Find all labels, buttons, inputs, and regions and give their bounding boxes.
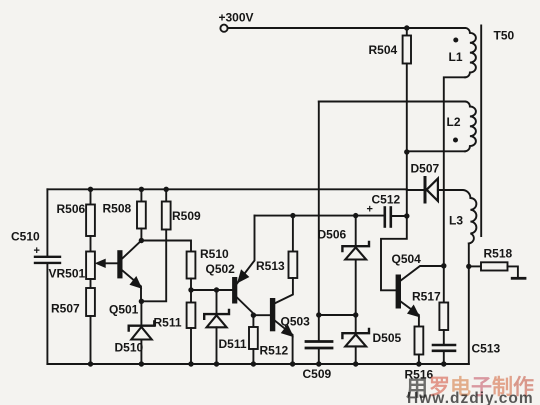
wire D507 anode to L3 top <box>438 189 463 191</box>
resistor R506 <box>86 205 95 237</box>
svg-text:+: + <box>367 204 373 216</box>
junction ground rail D505 <box>353 361 358 366</box>
wire R511 bottom to ground rail <box>190 328 192 364</box>
svg-text:Q504: Q504 <box>392 252 422 266</box>
svg-text:D507: D507 <box>411 162 440 176</box>
svg-text:R512: R512 <box>260 344 289 358</box>
svg-text:C513: C513 <box>472 342 501 356</box>
junction L3 bottom/R518 <box>466 264 471 269</box>
svg-text:+300V: +300V <box>219 11 254 25</box>
junction ground rail R512 <box>251 361 256 366</box>
wire L3 bottom column <box>468 243 470 364</box>
zener D510 triangle <box>131 327 151 340</box>
wire R506 to VR501 <box>90 236 92 252</box>
transistor Q504 collector <box>401 266 444 281</box>
svg-text:R507: R507 <box>51 302 80 316</box>
resistor R517 <box>439 303 448 331</box>
wire D506 bottom to bus <box>355 260 357 316</box>
transistor Q501 collector <box>122 241 142 260</box>
zener D506 triangle <box>345 247 366 259</box>
wire D506 top stub <box>355 216 357 245</box>
junction bus/D505-D506 <box>353 312 358 317</box>
wire +300V top rail <box>228 27 465 29</box>
junction Q501 emitter/R509/D510 <box>139 299 144 304</box>
junction ground rail C513 <box>441 361 446 366</box>
resistor R508 <box>137 202 146 229</box>
wire R510 to R511 node <box>190 279 192 303</box>
svg-text:D511: D511 <box>219 337 247 351</box>
svg-text:R513: R513 <box>256 259 285 273</box>
transistor Q501 emitter <box>122 270 142 302</box>
zener D511 triangle <box>207 315 227 327</box>
diode D507 cathode bar <box>424 178 427 203</box>
transformer phase dot L1 <box>453 38 458 43</box>
wire R518 right to ground <box>508 266 518 277</box>
transistor Q501 base bar <box>117 250 122 278</box>
junction ground rail R507 <box>88 361 93 366</box>
wire R513 top stub <box>292 216 294 252</box>
wire L1 bottom to collector column <box>444 77 465 265</box>
svg-text:R504: R504 <box>369 43 398 57</box>
transformer phase dot L2 <box>453 138 458 143</box>
resistor R516 <box>415 327 424 355</box>
resistor R504 <box>403 36 411 64</box>
wire left rail lower <box>46 264 48 364</box>
svg-text:L1: L1 <box>449 50 463 64</box>
wire main rail (R504/L2 node) down to C512 and base network <box>381 152 407 290</box>
resistor R512 <box>249 327 258 349</box>
wire Q502 base <box>191 289 232 291</box>
transistor Q503 base bar <box>270 298 275 331</box>
svg-text:R518: R518 <box>484 247 513 261</box>
junction R504 top <box>404 25 409 30</box>
svg-text:R510: R510 <box>200 247 229 261</box>
wire R518 left <box>469 265 481 267</box>
wire D510 bottom to ground rail <box>140 340 142 365</box>
svg-text:D506: D506 <box>318 228 347 242</box>
wire L2 top feedback wire <box>319 101 465 103</box>
wire Q502 collector to Q503 base node <box>253 314 270 316</box>
svg-text:L3: L3 <box>449 214 463 228</box>
wire L2 bottom to R504 bottom <box>407 150 465 152</box>
zener D505 triangle <box>345 334 366 346</box>
junction rail R509 <box>164 187 169 192</box>
junction rail R506 <box>88 187 93 192</box>
junction D511 top <box>214 287 219 292</box>
transistor Q502 emitter (PNP, up) <box>237 216 255 284</box>
inductor L2 (feedback winding) <box>465 102 476 152</box>
wire R509 top stub <box>165 189 167 201</box>
zener D506 cathode bar <box>342 242 369 251</box>
wire Q502 emitter node rail y215.6 <box>255 215 384 217</box>
wire R517 to C513 <box>443 330 445 344</box>
wire C512 right plate to main node <box>391 215 407 217</box>
svg-text:R517: R517 <box>412 290 441 304</box>
wire R508 top stub <box>140 189 142 201</box>
junction ground rail D511 <box>214 361 219 366</box>
inductor L3 <box>462 190 476 243</box>
svg-text:Q503: Q503 <box>281 315 311 329</box>
node +300V terminal <box>220 25 227 32</box>
wire R512 top stub <box>252 315 254 327</box>
resistor R507 <box>86 288 95 316</box>
wire R504 bottom to L2-bottom node <box>406 64 408 153</box>
wire D511 bottom to ground rail <box>216 327 218 364</box>
zener D505 cathode bar <box>342 329 369 338</box>
junction ground rail C509 <box>316 361 321 366</box>
junction ground rail R516 <box>416 361 421 366</box>
diode D507 triangle <box>427 179 438 202</box>
wire R513 bottom to Q503 collector <box>275 278 293 303</box>
wire bus C509 to D505/D506 <box>319 314 356 316</box>
junction C512 right <box>404 213 409 218</box>
zener D510 cathode bar <box>129 322 155 331</box>
wire R512 bottom to ground rail <box>252 349 254 364</box>
wire left rail upper <box>46 189 48 255</box>
transistor Q503 emitter arrow <box>282 325 293 336</box>
transistor Q504 emitter arrow <box>408 306 419 317</box>
transistor Q502 collector <box>237 298 253 316</box>
svg-text:D505: D505 <box>373 331 402 345</box>
junction Q502 collector/Q503 base/R512 <box>251 313 256 318</box>
wire D505 top stub <box>355 315 357 332</box>
wire collector junction to R510 top <box>141 241 191 252</box>
svg-text:Q501: Q501 <box>109 303 139 317</box>
svg-text:C510: C510 <box>11 230 40 244</box>
svg-text:Hww.dzdiy.com: Hww.dzdiy.com <box>407 390 534 405</box>
zener D511 cathode bar <box>204 310 229 319</box>
wire main horizontal rail y189 <box>47 188 406 190</box>
junction bus/C509 column <box>316 312 321 317</box>
inductor L1 (primary winding) <box>465 28 476 77</box>
transformer T50 core <box>480 26 482 237</box>
junction ground rail R511 <box>188 361 193 366</box>
junction D506 top <box>353 213 358 218</box>
capacitor C512 plates <box>383 208 386 227</box>
svg-text:T50: T50 <box>494 29 515 43</box>
junction ground rail D510 <box>139 361 144 366</box>
svg-text:VR501: VR501 <box>49 267 86 281</box>
resistor R509 <box>162 202 171 230</box>
wire R517 top stub <box>443 266 445 303</box>
wire D510 top stub <box>140 301 142 324</box>
wire D505 bottom to ground rail <box>355 346 357 364</box>
wire R507 bottom to ground rail <box>90 316 92 364</box>
transistor Q502 emitter arrow <box>238 270 249 282</box>
wire C513 bottom to ground rail <box>443 352 445 364</box>
svg-text:R506: R506 <box>57 202 86 216</box>
wire C509 bottom to ground rail <box>318 350 320 365</box>
resistor R510 <box>187 252 196 279</box>
svg-text:R508: R508 <box>103 201 132 215</box>
resistor R518 <box>481 262 508 270</box>
junction R504/L2 bottom <box>404 149 409 154</box>
svg-text:+: + <box>34 245 40 257</box>
wire R509 bottom to Q501 emitter node <box>141 230 166 302</box>
svg-text:C512: C512 <box>372 193 401 207</box>
svg-text:C509: C509 <box>303 367 332 381</box>
junction Q504 collector/R517 <box>441 263 446 268</box>
transistor Q503 emitter <box>275 321 293 364</box>
capacitor C509 <box>306 340 332 343</box>
junction Q501 collector/R508/R510 <box>139 238 144 243</box>
transistor Q502 base bar <box>232 277 237 304</box>
wire R504 column top stub <box>406 28 408 36</box>
resistor R511 <box>187 303 196 329</box>
junction rail R508 <box>139 187 144 192</box>
potentiometer VR501 body <box>86 252 95 280</box>
wire VR501 wiper to Q501 base <box>104 262 117 264</box>
resistor R513 <box>289 252 298 279</box>
potentiometer VR501 wiper arrow <box>96 259 105 267</box>
junction R510/R511/Q502 base <box>188 287 193 292</box>
ground (chassis) <box>512 277 525 280</box>
wire D507 cathode wire <box>407 189 424 191</box>
junction ground rail Q503 emitter <box>290 361 295 366</box>
junction R513 top <box>290 213 295 218</box>
svg-text:R509: R509 <box>172 209 201 223</box>
wire VR501 to R507 <box>90 279 92 288</box>
transistor Q501 emitter arrow <box>130 277 141 288</box>
transistor Q504 base bar <box>396 275 401 309</box>
svg-text:Q502: Q502 <box>206 262 236 276</box>
svg-text:R511: R511 <box>154 316 182 330</box>
svg-text:L2: L2 <box>447 115 461 129</box>
wire R506 top stub <box>90 189 92 204</box>
capacitor C510 <box>35 256 60 258</box>
wire bottom ground rail <box>47 363 468 365</box>
wire R508 bottom to collector junction <box>140 229 142 241</box>
capacitor C513 <box>433 344 455 347</box>
wire D511 top stub <box>216 290 218 313</box>
wire R516 bottom to ground rail <box>418 355 420 365</box>
transistor Q504 emitter <box>401 302 419 327</box>
svg-text:D510: D510 <box>115 341 144 355</box>
wire C509 column (L2 top to C509) <box>318 102 320 341</box>
